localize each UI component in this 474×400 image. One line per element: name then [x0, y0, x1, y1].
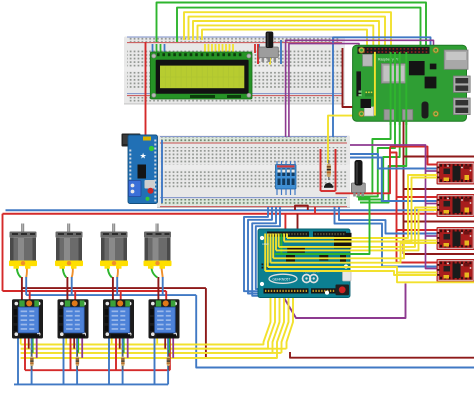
svg-text:GEHRNO5T: GEHRNO5T: [273, 278, 291, 282]
svg-text:Raspberry Pi 3: Raspberry Pi 3: [378, 58, 401, 62]
svg-text:AREF: AREF: [262, 242, 269, 246]
svg-text:★: ★: [140, 152, 147, 161]
